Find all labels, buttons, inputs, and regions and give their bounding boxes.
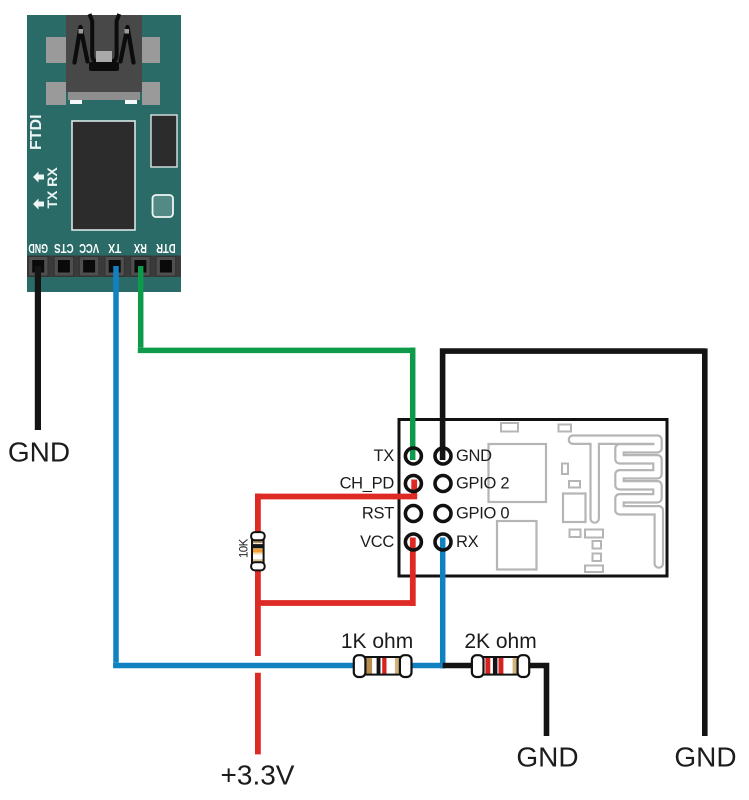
ESP pin RST [405,506,421,522]
svg-text:GND: GND [516,742,578,773]
svg-text:VCC: VCC [360,533,394,551]
wire red branch to ESP VCC [258,538,413,607]
mini-USB socket bottom bar [89,62,119,71]
svg-text:GND: GND [674,742,736,773]
ESP pin VCC [405,534,421,550]
svg-text:DTR: DTR [156,241,176,256]
ESP pin GPIO0 [435,506,451,522]
svg-text:CTS: CTS [54,241,74,256]
ESP pin TX [405,448,421,464]
wire black ESP GND up and around [440,348,705,736]
ESP pin GND [435,448,451,464]
small component black rect [151,115,177,167]
svg-text:CH_PD: CH_PD [340,475,395,493]
header pin 2 CTS [54,257,73,277]
mini-USB socket glyph right prong [121,27,134,63]
silkscreen arrow near RX [33,172,44,183]
ESP silkscreen small rect top-middle [559,425,572,432]
header pin 3 VCC [79,257,98,277]
ESP small rect [569,481,580,488]
small component light square [153,195,174,217]
wire red CH_PD stub [411,480,417,497]
mini-USB prong dot left [79,29,84,34]
ESP chip flash memory [497,521,537,570]
resistor R1 10K pull-up (vertical) [251,532,265,570]
svg-text:GPIO 2: GPIO 2 [456,475,509,493]
USB connector side tab upper-left [46,37,66,63]
wire red vertical below blue crossing to +3.3V [255,673,261,755]
ESP PCB antenna outline pass [573,440,659,564]
ESP small rect bottom e [585,566,603,573]
wire black divider middle to 2K resistor [443,663,474,669]
wire red horizontal to 10K [258,494,417,500]
ESP small square c [593,541,602,549]
ESP chip large (ESP8266EX) [489,444,547,502]
svg-text:10K: 10K [239,538,251,558]
wire black FTDI GND down [35,266,41,430]
svg-text:1K ohm: 1K ohm [341,630,413,653]
header pin 6 DTR [156,257,175,277]
USB connector side tab lower-right [142,82,160,105]
USB connector side tab upper-right [142,37,160,63]
svg-text:GND: GND [28,241,48,256]
ESP medium square (crystal) [563,494,586,523]
mini-USB connector J1 body [66,15,142,92]
svg-text:RST: RST [362,505,394,523]
ESP pin CH_PD [405,476,421,492]
svg-text:+3.3V: +3.3V [221,760,295,791]
mini-USB solder pad right [125,100,137,104]
wire red vertical through 10K down to crossing gap [255,494,261,657]
mini-USB socket glyph left prong [75,27,88,63]
ESP silkscreen notch rect top-left [501,423,518,432]
header pin 4 TX [105,257,124,277]
pin header strip [27,256,181,278]
wire blue FTDI TX to divider [113,266,443,666]
svg-text:RX: RX [456,533,479,551]
svg-text:TX: TX [374,447,395,465]
ESP8266 ESP-01 module U2 body [399,420,667,577]
silkscreen arrow near TX [33,199,44,210]
USB connector side tab lower-left [46,82,66,105]
ESP small square d [593,554,602,562]
svg-text:GND: GND [456,447,492,465]
mini-USB solder pad left [70,100,82,104]
svg-text:GND: GND [8,437,70,468]
wire blue ESP RX down to divider junction [440,538,446,669]
mini-USB prong dot right [125,29,130,34]
resistor R2 1K (horizontal) [354,655,412,677]
svg-text:GPIO 0: GPIO 0 [456,505,509,523]
resistor R3 2K (horizontal) [472,655,529,677]
ESP pin GPIO2 [435,476,451,492]
svg-text:VCC: VCC [79,241,99,256]
ESP PCB antenna stem outline pass [589,442,600,519]
svg-text:FTDI: FTDI [28,114,45,150]
ESP small rect bottom b [585,530,603,538]
ESP PCB antenna white inner pass [573,440,659,564]
mini-USB connector bottom strip [68,92,140,100]
ESP PCB antenna stem white inner pass [592,442,598,519]
svg-text:2K ohm: 2K ohm [464,630,536,653]
IC chip FT232 [72,121,135,230]
ESP pin RX [435,534,451,550]
svg-text:TX RX: TX RX [44,167,60,209]
svg-text:TX: TX [108,241,121,256]
wire black 2K resistor to GND [528,663,547,736]
mini-USB center pad [96,51,112,62]
header pin 5 RX [131,257,150,277]
svg-text:RX: RX [134,241,147,256]
ESP small rect bottom a [570,530,581,538]
ESP small vertical rect [562,464,568,475]
wire green FTDI RX to ESP TX [138,266,413,460]
header pin 1 GND [29,257,48,277]
FTDI adapter board U1 [27,15,181,292]
mini-USB socket glyph center U [90,14,120,62]
